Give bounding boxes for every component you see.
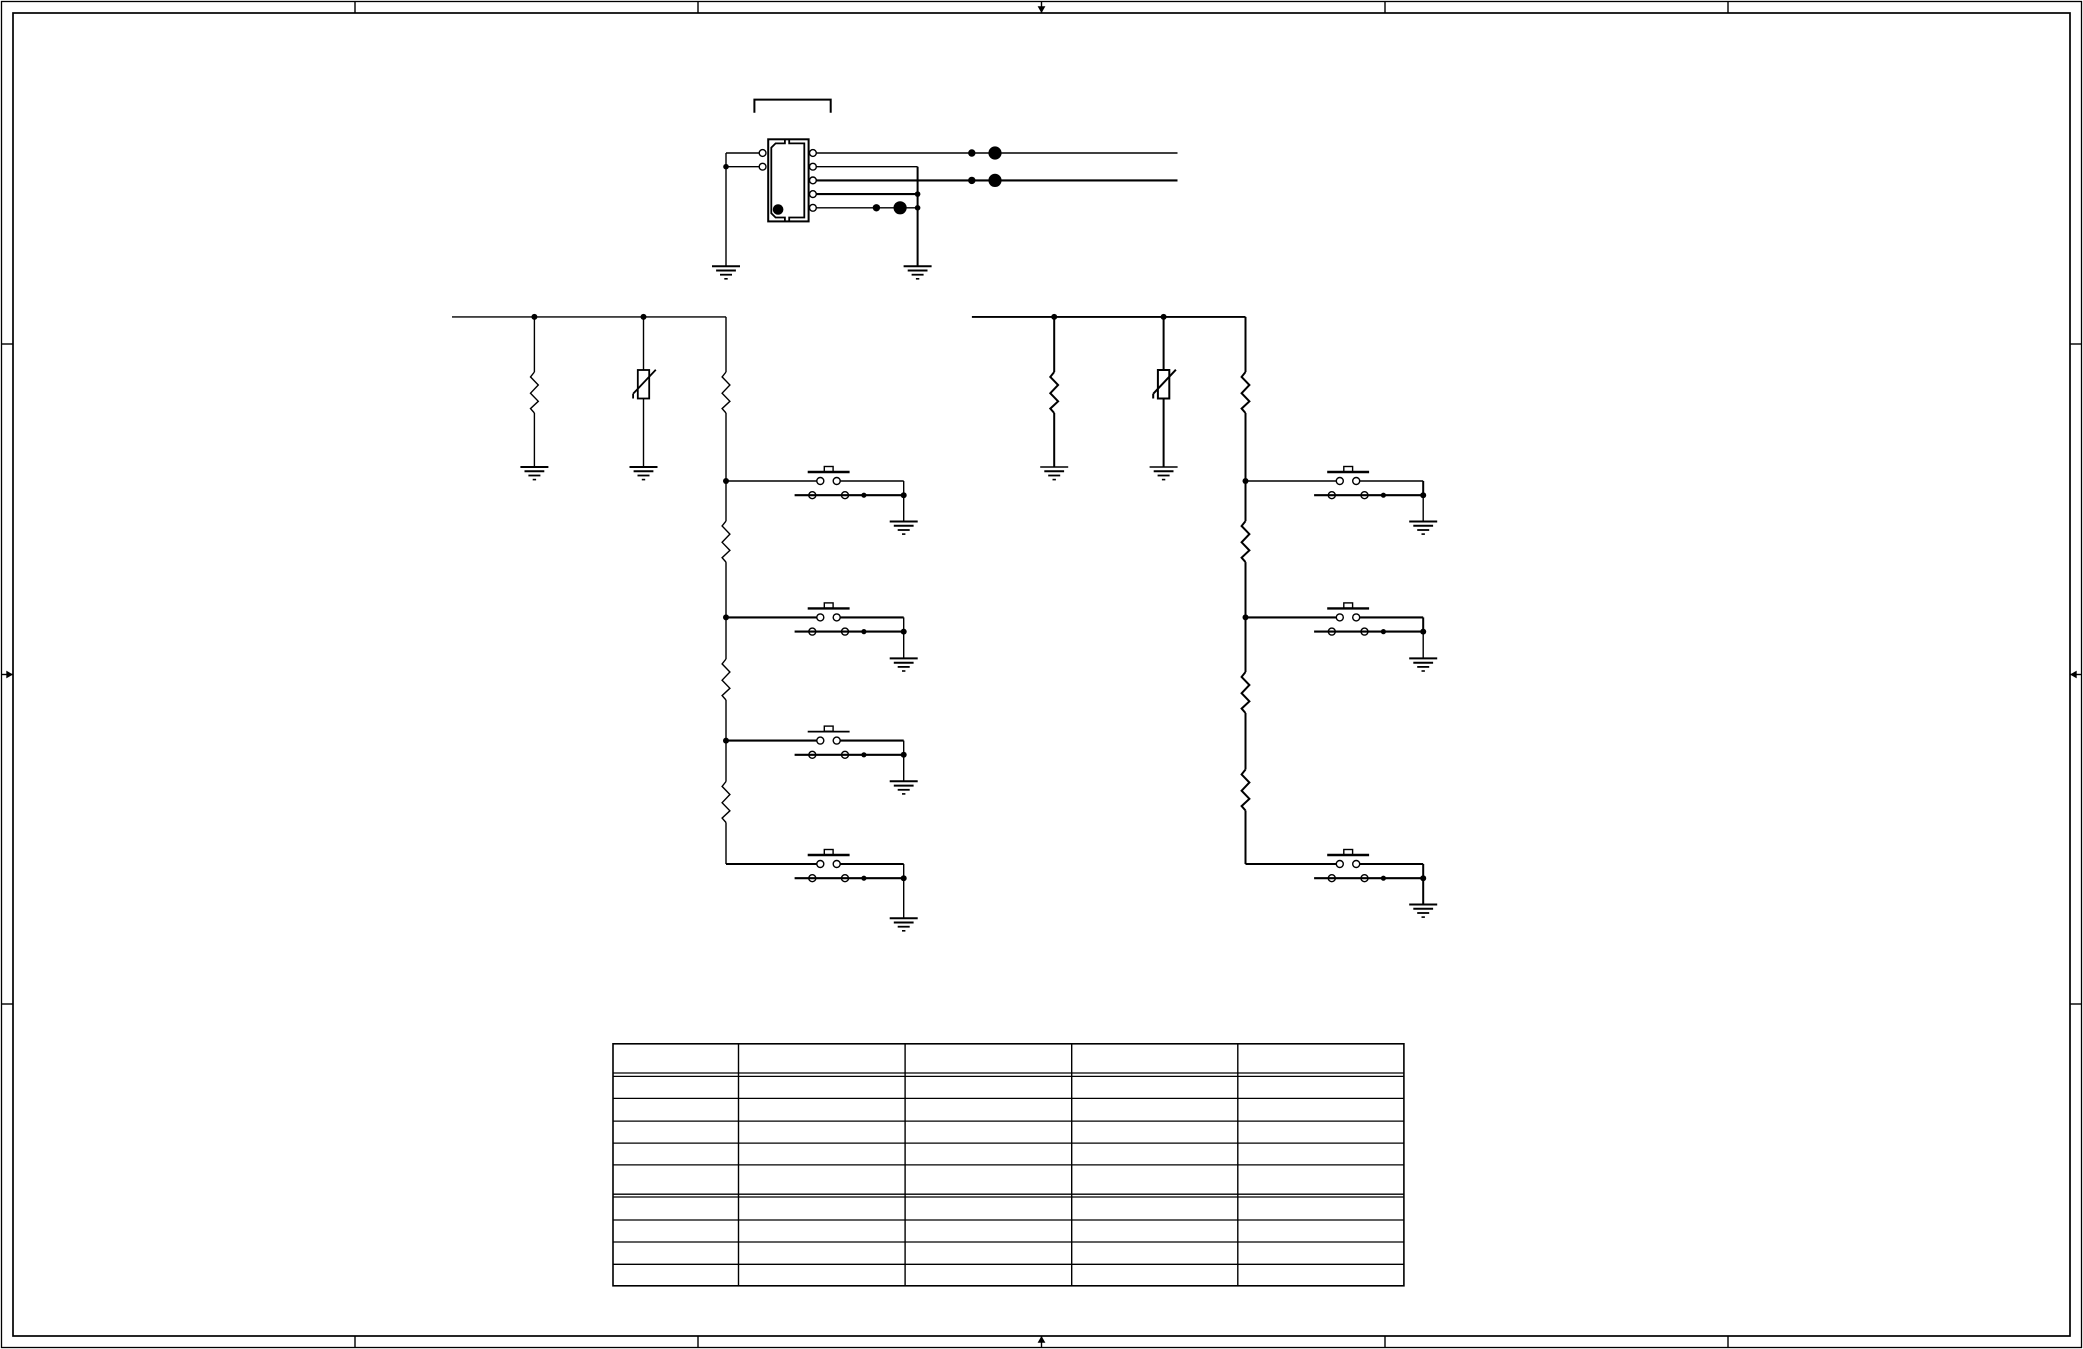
wire RV2 bottom lead [1163,399,1165,468]
junction SW2 ground node [901,629,907,635]
wire R1 top lead [533,317,535,372]
wire SW6 ground drop [1422,632,1424,659]
wire R8 to node F [1245,562,1247,617]
push-button switch SW5 [1314,467,1423,499]
connector J1 pin 1 (left) [759,150,766,157]
wire left bus KEY1 [452,316,726,318]
wire node B to R4 [725,617,727,659]
resistor R8 (ladder) [1242,521,1250,562]
wire SW3 input [726,740,817,742]
pad dot small on pin7 line [873,204,880,211]
ground [630,467,658,480]
connector J1 body [768,139,808,221]
wire SW6 input [1246,616,1337,618]
wire R3 to node B [725,562,727,617]
resistor R4 (ladder) [722,659,730,700]
resistor R5 (ladder) [722,782,730,823]
junction pin2/left vertical [723,164,729,170]
wire right ladder top [1245,317,1247,372]
junction left bus / R1 [531,314,537,320]
junction SW6 ground node [1420,629,1426,635]
wire ladder R7 to node E [1245,413,1247,481]
connector J1 pin 5 (right) [810,177,817,184]
ground [890,522,918,535]
connector J1 bracket [754,100,830,113]
wire R9 to R10 [1245,713,1247,770]
ground [890,781,918,794]
wire pin1 to left vertical [726,152,759,154]
junction right bus / R6 [1051,314,1057,320]
push-button switch SW1 [795,467,904,499]
pad dot large on pin3 line [988,146,1001,159]
wire ladder R2 to node A [725,413,727,481]
ground [890,918,918,931]
wire SW1 output to ground node [840,481,904,495]
ground [1409,905,1437,918]
wire SW4 ground drop [903,878,905,918]
wire SW7 input [1246,863,1337,865]
resistor R3 (ladder) [722,521,730,562]
junction node E [1243,478,1249,484]
connector J1 pin 2 (left) [759,163,766,170]
wire pin2 to left vertical [726,166,759,168]
ground [712,266,740,279]
wire SW5 input [1246,480,1337,482]
pad dot small on pin5 line [968,177,975,184]
wire SW1 input [726,480,817,482]
wire RV2 top lead [1163,317,1165,370]
ground [1040,467,1068,480]
wire pin3 long line right [816,152,1177,154]
wire SW7 ground drop [1422,878,1424,904]
connector J1 pin 6 (right) [810,191,817,198]
wire SW1 ground drop [903,495,905,521]
wire left ladder top [725,317,727,372]
wire SW6 output to ground node [1360,617,1424,631]
wire SW5 ground drop [1422,495,1424,521]
resistor R1 (pull-up) [531,372,539,413]
wire node E to R8 [1245,481,1247,521]
ground [1409,522,1437,535]
pad dot large on pin5 line [988,174,1001,187]
wire SW3 ground drop [903,755,905,782]
junction left bus / RV1 [641,314,647,320]
pad dot large on pin7 line [894,201,907,214]
wire RV1 top lead [643,317,645,370]
push-button switch SW2 [795,603,904,635]
junction SW3 ground node [901,752,907,758]
push-button switch SW4 [795,850,904,882]
wire SW2 ground drop [903,632,905,659]
wire pin5 long line right [816,179,1177,181]
table (empty revision/title block) [613,1044,1404,1286]
wire SW5 output to ground node [1360,481,1424,495]
wire SW7 output to ground node [1360,864,1424,878]
wire left vertical to ground [725,153,727,266]
wire mid vertical to ground [917,167,919,267]
junction right bus / RV2 [1161,314,1167,320]
junction node B [723,614,729,620]
junction node C [723,738,729,744]
wire node F to R9 [1245,617,1247,672]
resistor R2 (ladder) [722,372,730,413]
connector J1 pin 7 (right) [810,204,817,211]
ground [1150,467,1178,480]
wire SW3 output to ground node [840,741,904,755]
ground [904,266,932,279]
wire R4 to node C [725,700,727,741]
wire SW2 input [726,616,817,618]
junction SW5 ground node [1420,492,1426,498]
junction SW4 ground node [901,875,907,881]
resistor R10 (ladder) [1242,770,1250,811]
junction SW7 ground node [1420,875,1426,881]
push-button switch SW3 [795,726,904,758]
junction node F [1243,614,1249,620]
wire node C to R5 [725,741,727,782]
junction SW1 ground node [901,492,907,498]
ground [1409,658,1437,671]
wire R6 bottom lead [1053,413,1055,467]
wire RV1 bottom lead [643,399,645,468]
connector J1 pin 4 (right) [810,163,817,170]
wire R1 bottom lead [533,413,535,467]
wire pin7 to mid vertical [816,207,917,209]
wire R10 to node G corner [1245,811,1247,865]
wire pin6 to mid vertical [816,193,917,195]
wire pin4 to mid vertical [816,166,917,168]
varistor RV1 [633,370,656,399]
resistor R7 (ladder) [1242,372,1250,413]
connector J1 pin 3 (right) [810,150,817,157]
wire SW4 output to ground node [840,864,904,878]
wire SW2 output to ground node [840,617,904,631]
ground [890,658,918,671]
wire R6 top lead [1053,317,1055,372]
junction pin7/mid vertical [915,205,921,211]
wire R5 to node D corner [725,823,727,865]
resistor R9 (ladder) [1242,672,1250,713]
varistor RV2 [1153,370,1176,399]
push-button switch SW6 [1314,603,1423,635]
pad dot small on pin3 line [968,149,975,156]
junction pin6/mid vertical [915,191,921,197]
wire node A to R3 [725,481,727,521]
ground [520,467,548,480]
resistor R6 (pull-up) [1050,372,1058,413]
push-button switch SW7 [1314,850,1423,882]
junction node A [723,478,729,484]
wire right bus KEY2 [972,316,1246,318]
wire SW4 input [726,863,817,865]
